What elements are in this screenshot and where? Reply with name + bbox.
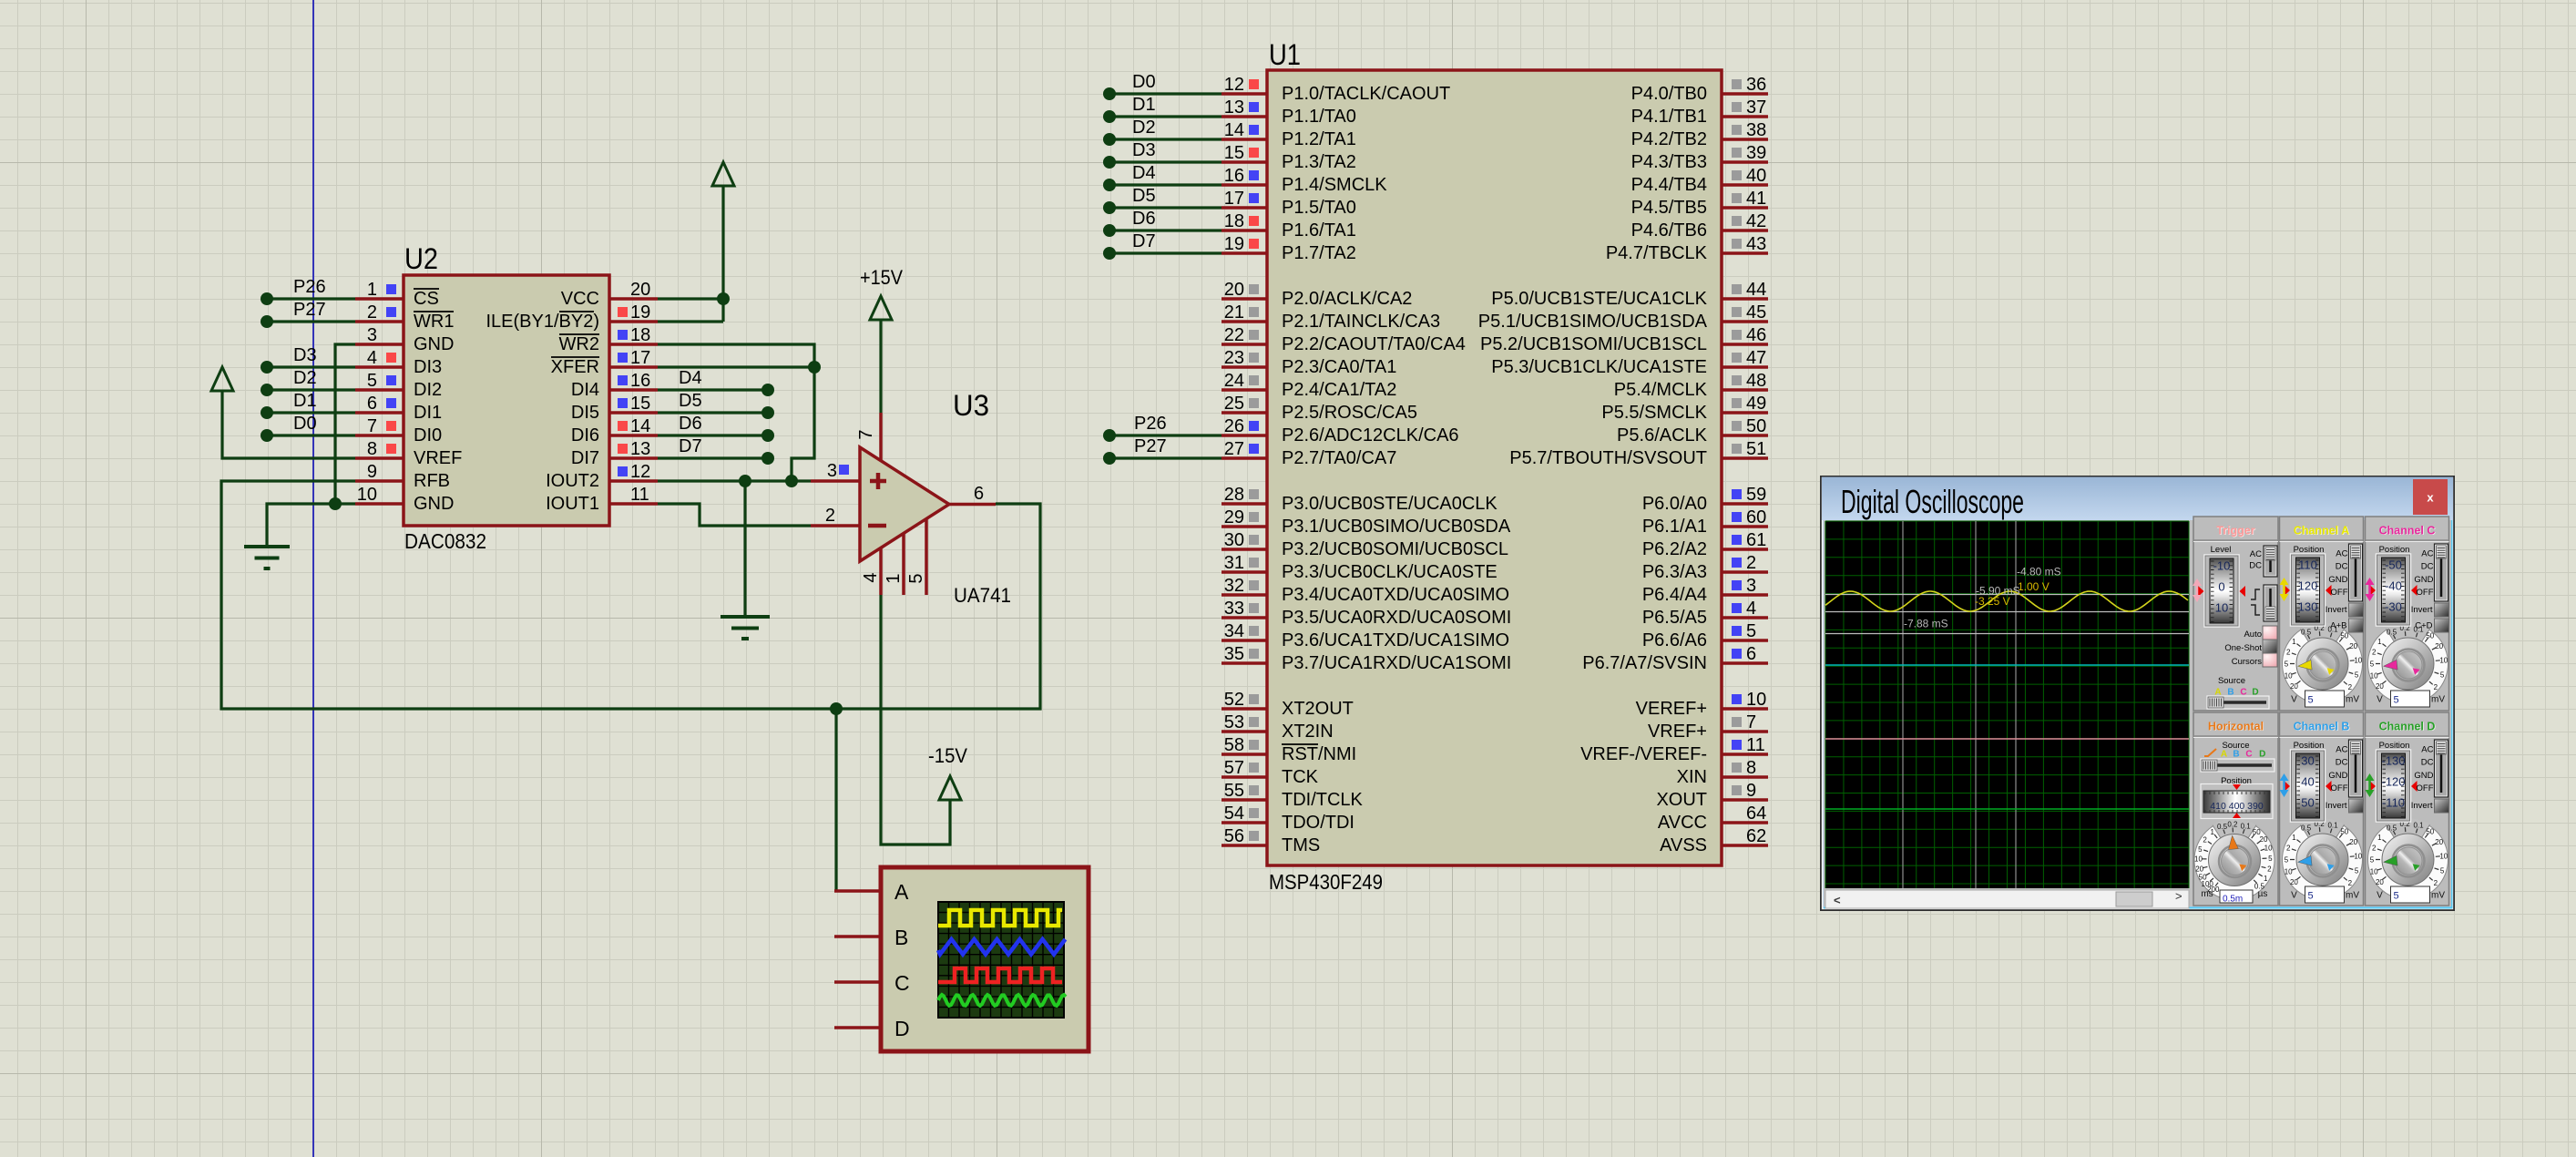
U1 pin 55 TDI/TCLK	[1222, 781, 1364, 810]
svg-text:P3.6/UCA1TXD/UCA1SIMO: P3.6/UCA1TXD/UCA1SIMO	[1282, 630, 1509, 650]
svg-text:41: 41	[1746, 189, 1766, 209]
svg-text:Digital Oscilloscope: Digital Oscilloscope	[1841, 483, 2024, 520]
svg-text:1: 1	[2292, 638, 2296, 646]
U1 pin 24 P2.4/CA1/TA2	[1222, 371, 1396, 400]
svg-text:P5.2/UCB1SOMI/UCB1SCL: P5.2/UCB1SOMI/UCB1SCL	[1480, 334, 1707, 354]
svg-text:2: 2	[825, 506, 835, 526]
U2 pin 19 ILE(BY1/BY2)	[486, 302, 658, 332]
svg-text:410 400 390: 410 400 390	[2210, 801, 2264, 812]
terminal D7 (U1 side)	[1103, 231, 1222, 260]
op-amp U3 UA741	[860, 389, 1011, 607]
svg-text:20: 20	[2195, 865, 2203, 874]
svg-text:10: 10	[2370, 671, 2378, 680]
svg-text:48: 48	[1746, 371, 1766, 391]
svg-text:XT2IN: XT2IN	[1282, 722, 1334, 742]
wire WR2 pin18 / XFER pin17 to op-amp + node	[658, 344, 821, 481]
terminal P27 (U1 side)	[1103, 436, 1222, 465]
svg-text:P6.0/A0: P6.0/A0	[1642, 494, 1707, 514]
svg-text:mV: mV	[2346, 891, 2359, 901]
svg-text:D5: D5	[1132, 186, 1156, 206]
terminal P26 (U1 side)	[1103, 414, 1222, 442]
wire U2 pin10 GND to ground	[267, 504, 355, 547]
U1 pin 28 P3.0/UCB0STE/UCA0CLK	[1222, 485, 1498, 514]
Channel B controls	[2280, 740, 2364, 822]
svg-text:5: 5	[2370, 856, 2375, 865]
svg-text:-110: -110	[2382, 796, 2405, 810]
U1 pin 12 P1.0/TACLK/CAOUT	[1222, 75, 1450, 104]
oscilloscope mini screen	[938, 902, 1066, 1018]
svg-text:2: 2	[2267, 865, 2272, 874]
svg-text:-15V: -15V	[928, 744, 967, 767]
U1 pin 48 P5.4/MCLK	[1614, 371, 1768, 400]
svg-text:7: 7	[856, 429, 876, 439]
svg-text:P5.1/UCB1SIMO/UCB1SDA: P5.1/UCB1SIMO/UCB1SDA	[1478, 312, 1708, 332]
svg-text:-130: -130	[2381, 754, 2405, 768]
wire RFB pin9 feedback loop to op-amp output	[221, 481, 1040, 709]
screen cursor lines	[1825, 521, 2189, 888]
svg-text:1: 1	[2210, 828, 2214, 836]
U1 pin 42 P4.6/TB6	[1631, 211, 1768, 241]
svg-text:5: 5	[2440, 867, 2445, 875]
svg-text:DC: DC	[2421, 562, 2434, 572]
svg-text:0.5: 0.5	[2387, 824, 2397, 832]
U1 pin 2 P6.3/A3	[1642, 553, 1768, 582]
svg-text:P4.6/TB6: P4.6/TB6	[1631, 220, 1707, 241]
U1 pin 5 P6.6/A6	[1642, 621, 1768, 650]
U2 pin 13 DI7	[571, 439, 658, 468]
svg-text:Source: Source	[2218, 676, 2245, 686]
U1 pin 9 XOUT	[1656, 781, 1768, 810]
svg-text:P3.0/UCB0STE/UCA0CLK: P3.0/UCB0STE/UCA0CLK	[1282, 494, 1498, 514]
terminal D0 (U1 side)	[1103, 72, 1222, 100]
svg-text:VREF-/VEREF-: VREF-/VEREF-	[1580, 744, 1707, 764]
terminal P26 (U2 side)	[261, 277, 355, 305]
svg-text:-4.80 mS: -4.80 mS	[2017, 566, 2061, 578]
svg-text:21: 21	[1224, 302, 1244, 323]
svg-text:VREF: VREF	[414, 448, 462, 468]
close button	[2413, 479, 2448, 515]
svg-text:P4.0/TB0: P4.0/TB0	[1631, 84, 1707, 104]
svg-text:DC: DC	[2336, 562, 2348, 572]
U1 pin 25 P2.5/ROSC/CA5	[1222, 394, 1417, 423]
svg-text:0.1: 0.1	[2413, 822, 2424, 830]
U1 pin 49 P5.5/SMCLK	[1601, 394, 1768, 423]
svg-text:64: 64	[1746, 804, 1766, 824]
power arrow VCC	[712, 162, 734, 186]
svg-text:49: 49	[1746, 394, 1766, 414]
U2 pin 12 IOUT2	[546, 462, 658, 491]
power arrow -15V	[928, 744, 967, 800]
svg-text:110: 110	[2298, 558, 2317, 572]
svg-text:TDI/TCLK: TDI/TCLK	[1282, 790, 1364, 810]
terminal D5 (U1 side)	[1103, 186, 1222, 214]
svg-text:UA741: UA741	[954, 584, 1011, 607]
terminal D7 (U2 right)	[658, 436, 774, 465]
svg-text:P4.2/TB2: P4.2/TB2	[1631, 129, 1707, 149]
svg-text:AVSS: AVSS	[1660, 835, 1707, 855]
svg-text:-3.25 V: -3.25 V	[1975, 595, 2010, 608]
svg-text:2: 2	[2434, 879, 2438, 887]
U1 pin 40 P4.4/TB4	[1631, 166, 1768, 195]
svg-text:4: 4	[367, 348, 377, 368]
svg-text:5: 5	[2308, 695, 2314, 706]
svg-text:D0: D0	[293, 414, 317, 434]
svg-text:Channel D: Channel D	[2379, 721, 2436, 733]
power arrow VREF	[211, 367, 233, 391]
screen cursor labels	[1904, 566, 2061, 630]
svg-text:10: 10	[2354, 656, 2362, 664]
svg-text:A: A	[2221, 750, 2227, 760]
terminal D3 (U1 side)	[1103, 140, 1222, 169]
svg-text:AC: AC	[2336, 745, 2347, 755]
svg-text:9: 9	[1746, 781, 1756, 801]
svg-text:5: 5	[906, 573, 926, 583]
svg-text:0: 0	[2218, 580, 2224, 594]
svg-text:VEREF+: VEREF+	[1636, 699, 1707, 719]
scope panel Trigger	[2193, 517, 2278, 711]
terminal D0 (U2 side)	[261, 414, 355, 442]
svg-text:P1.0/TACLK/CAOUT: P1.0/TACLK/CAOUT	[1282, 84, 1450, 104]
svg-text:8: 8	[367, 439, 377, 459]
svg-text:P6.5/A5: P6.5/A5	[1642, 608, 1707, 628]
wire + node to ground	[743, 481, 746, 617]
svg-text:DI5: DI5	[571, 403, 599, 423]
U1 pin 62 AVSS	[1660, 826, 1768, 855]
svg-text:32: 32	[1224, 576, 1244, 596]
U1 pin 8 XIN	[1677, 758, 1768, 787]
svg-text:GND: GND	[414, 334, 454, 354]
svg-text:P6.6/A6: P6.6/A6	[1642, 630, 1707, 650]
svg-text:34: 34	[1224, 621, 1244, 641]
terminal P27 (U2 side)	[261, 300, 355, 328]
svg-text:24: 24	[1224, 371, 1244, 391]
svg-text:P6.1/A1: P6.1/A1	[1642, 517, 1707, 537]
svg-text:54: 54	[1224, 804, 1244, 824]
svg-text:61: 61	[1746, 530, 1766, 550]
svg-text:5: 5	[2355, 867, 2359, 875]
svg-text:2: 2	[2203, 835, 2207, 844]
wire op-amp pin7 to +15V	[879, 321, 882, 413]
svg-text:Horizontal: Horizontal	[2208, 721, 2264, 733]
svg-text:Invert: Invert	[2411, 801, 2433, 811]
U1 pin 56 TMS	[1222, 826, 1320, 855]
wire IOUT1 pin11 to op-amp - input	[658, 504, 811, 526]
svg-text:B: B	[2233, 750, 2239, 760]
svg-text:P5.6/ACLK: P5.6/ACLK	[1617, 425, 1708, 445]
svg-text:XFER: XFER	[551, 357, 599, 377]
screen scrollbar	[1825, 889, 2189, 908]
svg-text:1: 1	[2377, 638, 2382, 646]
U1 pin 15 P1.3/TA2	[1222, 143, 1356, 172]
oscilloscope pin C	[834, 971, 910, 995]
svg-text:20: 20	[630, 280, 650, 300]
terminal D1 (U2 side)	[261, 391, 355, 419]
terminal D4 (U1 side)	[1103, 163, 1222, 191]
svg-text:20: 20	[2260, 835, 2268, 844]
svg-text:5: 5	[367, 371, 377, 391]
svg-text:C: C	[2245, 750, 2252, 760]
U1 pin 54 TDO/TDI	[1222, 804, 1354, 833]
svg-text:5: 5	[2285, 856, 2289, 865]
svg-text:P26: P26	[293, 277, 326, 297]
svg-text:10: 10	[2264, 845, 2273, 853]
svg-text:10: 10	[2439, 656, 2448, 664]
svg-text:D7: D7	[679, 436, 702, 456]
U1 pin 14 P1.2/TA1	[1222, 120, 1356, 149]
svg-text:P6.3/A3: P6.3/A3	[1642, 562, 1707, 582]
svg-text:-120: -120	[2381, 775, 2405, 789]
svg-text:C: C	[894, 971, 910, 995]
svg-text:P2.1/TAINCLK/CA3: P2.1/TAINCLK/CA3	[1282, 312, 1440, 332]
svg-text:130: 130	[2298, 600, 2318, 614]
svg-text:µs: µs	[2258, 889, 2268, 899]
svg-text:28: 28	[1224, 485, 1244, 505]
svg-text:OFF: OFF	[2331, 783, 2348, 794]
Channel B knob	[2283, 818, 2363, 903]
wire VREF pin8 to power arrow	[222, 390, 355, 458]
svg-text:D2: D2	[1132, 118, 1156, 138]
U1 pin 4 P6.5/A5	[1642, 599, 1768, 628]
U1 pin 11 VREF-/VEREF-	[1580, 735, 1768, 764]
svg-text:11: 11	[1746, 735, 1765, 755]
terminal D4 (U2 right)	[658, 368, 774, 396]
U2 pin 7 DI0	[355, 416, 442, 445]
U2 pin 20 VCC	[561, 280, 658, 309]
U3 pin 6 output	[949, 484, 996, 505]
U1 pin 53 XT2IN	[1222, 712, 1334, 742]
svg-text:30: 30	[1224, 530, 1244, 550]
U1 pin 45 P5.1/UCB1SIMO/UCB1SDA	[1478, 302, 1768, 332]
svg-text:10: 10	[2285, 671, 2293, 680]
svg-text:10: 10	[2354, 852, 2362, 860]
svg-text:D2: D2	[293, 368, 317, 388]
svg-text:14: 14	[630, 416, 650, 436]
svg-text:+15V: +15V	[860, 266, 903, 289]
svg-text:6: 6	[974, 484, 984, 504]
svg-text:GND: GND	[414, 494, 454, 514]
svg-text:ms: ms	[2201, 889, 2213, 899]
svg-text:AC: AC	[2421, 745, 2433, 755]
svg-text:18: 18	[630, 325, 650, 345]
U3 pin 4 V-	[861, 548, 881, 595]
svg-text:D6: D6	[1132, 209, 1156, 229]
svg-text:mV: mV	[2431, 695, 2445, 705]
svg-text:1: 1	[2377, 834, 2382, 842]
svg-text:20: 20	[2435, 642, 2443, 650]
svg-text:22: 22	[1224, 325, 1244, 345]
svg-text:4: 4	[861, 572, 881, 582]
svg-text:40: 40	[2301, 775, 2314, 789]
svg-text:12: 12	[630, 462, 650, 482]
svg-text:P26: P26	[1134, 414, 1167, 434]
svg-text:25: 25	[1224, 394, 1244, 414]
svg-text:5: 5	[2355, 671, 2359, 680]
svg-text:P4.3/TB3: P4.3/TB3	[1631, 152, 1707, 172]
U1 pin 19 P1.7/TA2	[1222, 234, 1356, 263]
U1 pin 38 P4.2/TB2	[1631, 120, 1768, 149]
svg-text:DC: DC	[2421, 758, 2434, 768]
svg-text:DI7: DI7	[571, 448, 599, 468]
U2 pin 16 DI4	[571, 371, 658, 400]
svg-text:D0: D0	[1132, 72, 1156, 92]
U1 pin 39 P4.3/TB3	[1631, 143, 1768, 172]
svg-text:13: 13	[630, 439, 650, 459]
svg-text:>: >	[2175, 889, 2182, 903]
svg-text:-40: -40	[2385, 579, 2402, 593]
svg-text:5: 5	[2440, 671, 2445, 680]
svg-text:V: V	[2377, 695, 2383, 705]
svg-text:RFB: RFB	[414, 471, 450, 491]
svg-text:0.2: 0.2	[2227, 821, 2238, 829]
svg-text:42: 42	[1746, 211, 1766, 231]
svg-text:D3: D3	[1132, 140, 1156, 160]
svg-text:5: 5	[2370, 660, 2375, 669]
scope panel Channel D	[2366, 712, 2449, 906]
svg-text:-50: -50	[2385, 558, 2402, 572]
channel A waveform (yellow sine)	[1825, 591, 2188, 611]
svg-text:Invert: Invert	[2411, 605, 2433, 615]
svg-text:P3.7/UCA1RXD/UCA1SOMI: P3.7/UCA1RXD/UCA1SOMI	[1282, 653, 1511, 673]
svg-text:DI2: DI2	[414, 380, 442, 400]
U1 pin 52 XT2OUT	[1222, 690, 1354, 719]
svg-text:19: 19	[1224, 234, 1244, 254]
channel D reference line (green)	[1825, 808, 2189, 810]
U1 pin 23 P2.3/CA0/TA1	[1222, 348, 1396, 377]
svg-text:U3: U3	[953, 389, 989, 422]
svg-text:P6.2/A2: P6.2/A2	[1642, 539, 1707, 559]
wire op-amp pin4 to -15V	[881, 595, 950, 845]
svg-text:2: 2	[2348, 683, 2353, 691]
svg-text:5: 5	[2308, 891, 2314, 902]
svg-text:7: 7	[367, 416, 377, 436]
svg-text:2: 2	[2372, 649, 2377, 657]
svg-text:30: 30	[2301, 754, 2314, 768]
svg-text:10: 10	[357, 485, 377, 505]
svg-text:D3: D3	[293, 345, 317, 365]
U1 pin 33 P3.5/UCA0RXD/UCA0SOMI	[1222, 599, 1511, 628]
svg-text:10: 10	[2285, 867, 2293, 875]
svg-text:60: 60	[1746, 507, 1766, 527]
svg-text:2: 2	[2348, 879, 2353, 887]
svg-text:P5.5/SMCLK: P5.5/SMCLK	[1601, 403, 1707, 423]
svg-text:46: 46	[1746, 325, 1766, 345]
ground symbol left	[244, 547, 290, 568]
svg-text:XIN: XIN	[1677, 767, 1707, 787]
scope window title bar	[1822, 477, 2453, 521]
svg-text:DAC0832: DAC0832	[404, 529, 486, 553]
svg-text:P6.4/A4: P6.4/A4	[1642, 585, 1707, 605]
svg-text:Channel B: Channel B	[2294, 721, 2350, 733]
svg-text:mV: mV	[2346, 695, 2359, 705]
oscilloscope pin B	[834, 926, 908, 949]
U1 pin 46 P5.2/UCB1SOMI/UCB1SCL	[1480, 325, 1768, 354]
svg-text:5: 5	[2394, 695, 2399, 706]
svg-text:1: 1	[367, 280, 377, 300]
svg-text:50: 50	[1746, 416, 1766, 436]
svg-text:2: 2	[2286, 649, 2291, 657]
svg-text:38: 38	[1746, 120, 1766, 140]
svg-text:A+B: A+B	[2330, 621, 2346, 631]
U1 pin 10 VEREF+	[1636, 690, 1768, 719]
svg-text:13: 13	[1224, 97, 1244, 118]
svg-text:5: 5	[2268, 855, 2273, 863]
svg-text:D5: D5	[679, 391, 702, 411]
svg-text:40: 40	[1746, 166, 1766, 186]
channel B reference line (cyan)	[1825, 664, 2189, 666]
svg-text:59: 59	[1746, 485, 1766, 505]
svg-text:P1.3/TA2: P1.3/TA2	[1282, 152, 1356, 172]
chip U2 DAC0832 body	[404, 242, 609, 553]
U1 pin 59 P6.0/A0	[1642, 485, 1768, 514]
U1 pin 32 P3.4/UCA0TXD/UCA0SIMO	[1222, 576, 1509, 605]
svg-text:DC: DC	[2336, 758, 2348, 768]
U2 pin 15 DI5	[571, 394, 658, 423]
U1 pin 18 P1.6/TA1	[1222, 211, 1356, 241]
Channel C controls	[2366, 544, 2449, 632]
U1 pin 6 P6.7/A7/SVSIN	[1582, 644, 1768, 673]
svg-text:3: 3	[367, 325, 377, 345]
svg-text:U1: U1	[1269, 38, 1301, 71]
Channel A controls	[2280, 544, 2364, 632]
svg-text:TDO/TDI: TDO/TDI	[1282, 813, 1354, 833]
svg-text:16: 16	[1224, 166, 1244, 186]
U3 pin 5	[906, 518, 926, 595]
U2 pin 17 XFER	[551, 348, 658, 377]
svg-text:WR2: WR2	[559, 334, 599, 354]
svg-text:MSP430F249: MSP430F249	[1269, 870, 1383, 894]
U3 pin 2 (-)	[811, 506, 860, 526]
wire feedback node to oscilloscope input A	[830, 702, 843, 891]
svg-text:IOUT2: IOUT2	[546, 471, 599, 491]
svg-text:D6: D6	[679, 414, 702, 434]
svg-text:XT2OUT: XT2OUT	[1282, 699, 1354, 719]
U2 pin 4 DI3	[355, 348, 442, 377]
svg-text:TMS: TMS	[1282, 835, 1320, 855]
U2 pin 2 WR1	[355, 302, 454, 332]
svg-text:WR1: WR1	[414, 312, 454, 332]
U1 pin 27 P2.7/TA0/CA7	[1222, 439, 1396, 468]
svg-text:6: 6	[1746, 644, 1756, 664]
svg-text:P5.4/MCLK: P5.4/MCLK	[1614, 380, 1708, 400]
scope panel Channel A	[2280, 517, 2364, 711]
svg-text:56: 56	[1224, 826, 1244, 846]
svg-text:26: 26	[1224, 416, 1244, 436]
svg-text:5: 5	[2394, 891, 2399, 902]
svg-text:33: 33	[1224, 599, 1244, 619]
svg-text:XOUT: XOUT	[1656, 790, 1707, 810]
U1 pin 7 VREF+	[1648, 712, 1768, 742]
svg-text:P3.1/UCB0SIMO/UCB0SDA: P3.1/UCB0SIMO/UCB0SDA	[1282, 517, 1511, 537]
U1 pin 58 RST/NMI	[1222, 735, 1356, 764]
svg-text:-10: -10	[2213, 559, 2231, 573]
svg-text:16: 16	[630, 371, 650, 391]
svg-text:A: A	[894, 880, 909, 904]
svg-text:Channel A: Channel A	[2294, 525, 2349, 538]
svg-text:D1: D1	[293, 391, 317, 411]
U1 pin 29 P3.1/UCB0SIMO/UCB0SDA	[1222, 507, 1511, 537]
terminal D2 (U1 side)	[1103, 118, 1222, 146]
svg-text:37: 37	[1746, 97, 1766, 118]
svg-text:P6.7/A7/SVSIN: P6.7/A7/SVSIN	[1582, 653, 1707, 673]
svg-text:0.5: 0.5	[2301, 824, 2312, 832]
svg-text:43: 43	[1746, 234, 1766, 254]
svg-text:GND: GND	[2328, 771, 2347, 781]
svg-text:2: 2	[2434, 683, 2438, 691]
svg-text:5: 5	[2285, 660, 2289, 669]
svg-text:Auto: Auto	[2244, 630, 2262, 640]
svg-text:29: 29	[1224, 507, 1244, 527]
Channel D knob	[2368, 818, 2448, 903]
